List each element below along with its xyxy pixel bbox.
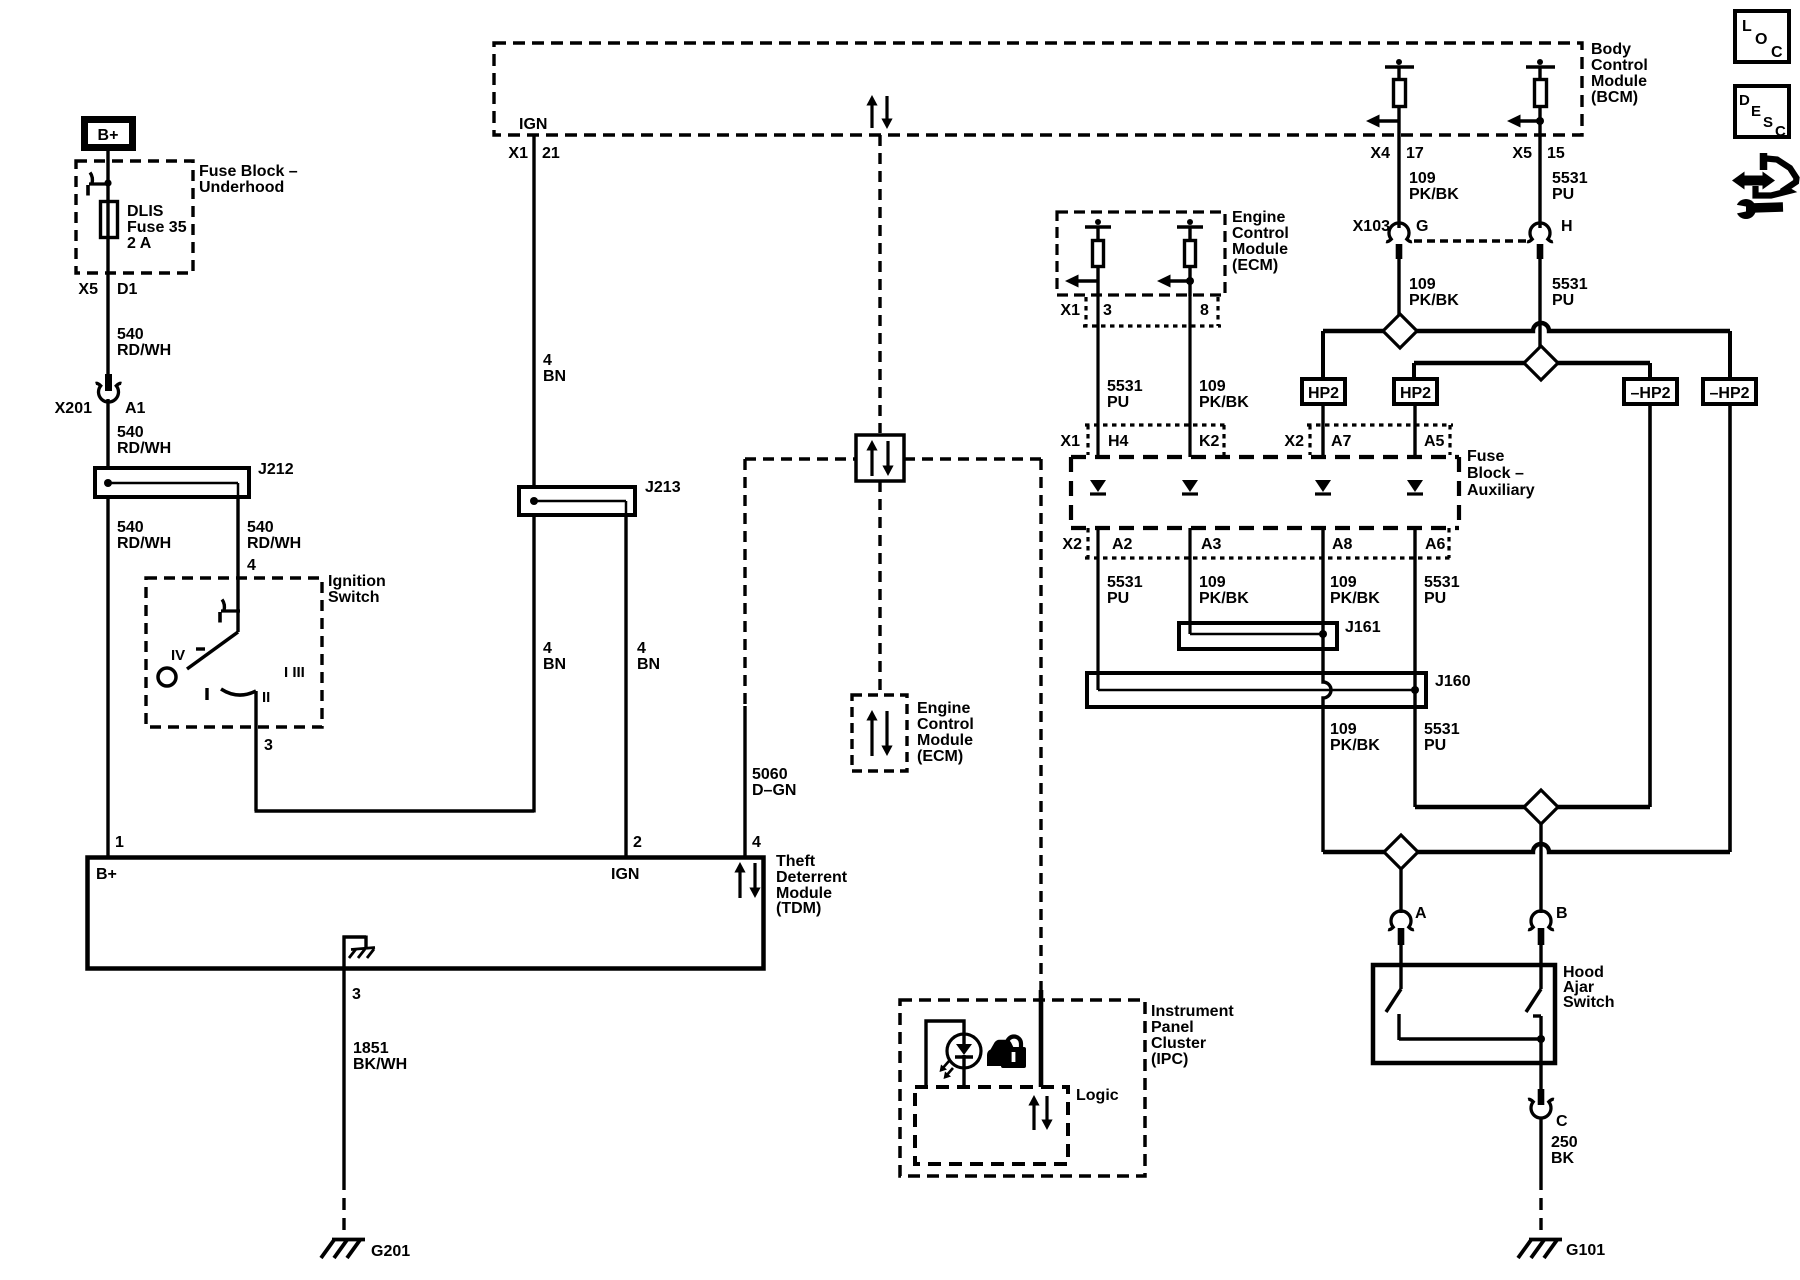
wire label 109 PK/BK below X103 [1409,276,1459,309]
wire label 109 PK/BK above X103 [1409,170,1459,203]
label Ignition Switch [328,573,386,606]
diode in fuse K2-A3 [1182,480,1198,494]
svg-text:J161: J161 [1345,619,1381,636]
security car-with-lock icon [987,1037,1026,1068]
wire -HP2-1 down to lower bus [1648,404,1652,807]
svg-text:A2: A2 [1112,536,1133,553]
svg-text:O: O [1755,31,1767,48]
svg-text:109: 109 [1409,170,1436,187]
indicator LED branch wiring [926,1021,964,1087]
label DLIS Fuse 35 2A [127,203,187,252]
svg-text:E: E [1751,103,1761,120]
fuse HP2 first box [1302,379,1345,404]
svg-text:4: 4 [543,352,552,369]
fuse aux bottom connector dotted outline [1085,528,1452,558]
serial data arrows inside TDM [734,862,760,898]
fuse HP2 second box [1394,379,1437,404]
svg-text:109: 109 [1330,721,1357,738]
hood diagnostic icon outline [1756,153,1797,196]
fuse DLIS Fuse 35 2A body [101,202,118,238]
label X201 A1 [55,400,146,417]
svg-text:5060: 5060 [752,766,788,783]
Hood Ajar Switch box [1373,965,1555,1063]
svg-text:S: S [1763,114,1773,131]
svg-text:C: C [1771,44,1783,61]
svg-text:250: 250 [1551,1134,1578,1151]
pin labels X2 A2 A3 A8 A6 [1062,536,1445,553]
svg-text:RD/WH: RD/WH [117,342,171,359]
svg-text:Block –: Block – [1467,465,1524,482]
svg-text:3: 3 [264,737,273,754]
svg-text:L: L [1742,18,1752,35]
svg-text:B: B [1556,905,1568,922]
connector X103 dashed link [1414,239,1526,242]
svg-text:PK/BK: PK/BK [1199,590,1249,607]
svg-text:K2: K2 [1199,433,1220,450]
wire label 5531 PU below A2 [1107,574,1143,607]
svg-text:X2: X2 [1284,433,1304,450]
serial data dashed line from bus to splice box [878,135,881,433]
ignition switch blade [187,611,238,669]
svg-text:G: G [1416,218,1428,235]
IGN BCM top dashed bus box [494,43,1582,135]
wire ECM X1-8 down [1188,296,1191,457]
svg-text:X2: X2 [1062,536,1082,553]
svg-text:2: 2 [633,834,642,851]
wire label 540 RD/WH upper [117,326,171,359]
svg-text:109: 109 [1199,574,1226,591]
ground G201 [321,1240,365,1259]
svg-text:Fuse Block –: Fuse Block – [199,163,298,180]
junction diamond 5531 net lower [1524,790,1558,824]
serial arrows in logic box [1028,1095,1052,1130]
pin labels X1 H4 K2 [1060,433,1219,450]
svg-text:X1: X1 [1060,302,1080,319]
svg-text:X1: X1 [1060,433,1080,450]
svg-text:–HP2: –HP2 [1709,385,1749,402]
svg-text:(BCM): (BCM) [1591,89,1638,106]
svg-text:Auxiliary: Auxiliary [1467,482,1535,499]
wire X103-G to bus diamond [1397,259,1400,331]
LOC legend box [1735,11,1789,62]
svg-text:5531: 5531 [1424,574,1460,591]
svg-text:BN: BN [637,656,660,673]
wire label 1851 BK/WH [353,1040,407,1073]
svg-text:IGN: IGN [611,866,639,883]
svg-text:A3: A3 [1201,536,1222,553]
svg-text:1851: 1851 [353,1040,389,1057]
svg-text:109: 109 [1409,276,1436,293]
svg-text:5531: 5531 [1107,574,1143,591]
wire label 109 PK/BK below A8 [1330,574,1380,607]
pin labels X5 15 [1512,145,1564,162]
Engine Control Module dashed box upper [1057,212,1225,295]
fuse aux connector X2 dotted outline [1307,425,1453,455]
diode in fuse A7-A8 [1315,480,1331,494]
serial dashed to IPC leg [904,457,1041,460]
svg-text:BN: BN [543,656,566,673]
serial data arrows on bus at BCM [866,95,892,129]
label Theft Deterrent Module TDM [776,853,848,917]
svg-text:(IPC): (IPC) [1151,1051,1188,1068]
svg-text:4: 4 [752,834,761,851]
svg-text:3: 3 [1103,302,1112,319]
junction dot hood switch common [1537,1035,1545,1043]
bus 5531 PU lower [1415,805,1650,809]
wire label 540 RD/WH below X201 [117,424,171,457]
bus 5531 PU upper [1414,363,1650,379]
Fuse Block Underhood dashed box [76,161,193,273]
Theft Deterrent Module box [88,858,764,969]
svg-text:PU: PU [1107,590,1129,607]
svg-text:Switch: Switch [1563,994,1615,1011]
svg-text:H: H [1561,218,1573,235]
svg-text:Module: Module [917,732,973,749]
wire diamond to hood switch pin A [1399,869,1402,913]
svg-text:A5: A5 [1424,433,1445,450]
svg-text:3: 3 [352,986,361,1003]
wire label 5060 D-GN [752,766,796,799]
svg-text:Control: Control [917,716,974,733]
svg-text:Fuse: Fuse [1467,448,1504,465]
svg-text:Deterrent: Deterrent [776,869,848,886]
wire label 5531 PU ECM [1107,378,1143,411]
fuse aux connector X1 dotted outline [1085,425,1227,455]
svg-text:C: C [1775,123,1786,140]
svg-text:RD/WH: RD/WH [247,535,301,552]
svg-text:J213: J213 [645,479,681,496]
hood diagnostic icon arrows [1732,172,1775,190]
svg-text:X103: X103 [1353,218,1390,235]
svg-text:15: 15 [1547,145,1565,162]
wire J212 right branch to ignition switch [236,497,239,611]
label Engine Control Module ECM upper [1232,209,1289,274]
splice J212 box [95,468,249,497]
label Instrument Panel Cluster IPC [1151,1003,1234,1068]
ECM driver resistor X1-8 [1157,219,1203,296]
junction diamond 109 net upper [1383,314,1417,348]
svg-text:D1: D1 [117,281,138,298]
svg-text:Instrument: Instrument [1151,1003,1234,1020]
svg-text:Body: Body [1591,41,1631,58]
ECM connector dotted outline [1083,297,1221,326]
svg-text:Control: Control [1591,57,1648,74]
hood diagnostic icon wrench [1732,199,1783,219]
label Fuse Block Auxiliary [1467,448,1535,499]
svg-text:109: 109 [1330,574,1357,591]
svg-text:Logic: Logic [1076,1087,1119,1104]
svg-text:Cluster: Cluster [1151,1035,1206,1052]
wire TDM pin3 to G201 [342,968,345,1236]
wire B+ to fuse DLIS [106,151,109,376]
svg-text:A6: A6 [1425,536,1446,553]
wire HP2-2 to fuse block A5 [1413,404,1416,457]
svg-text:C: C [1556,1113,1568,1130]
wire -HP2-2 down to lower bus [1728,404,1732,852]
Logic dashed box [915,1087,1068,1164]
svg-text:4: 4 [543,640,552,657]
wire diamond to hood switch pin B [1539,824,1542,913]
wire X201 to J212 [106,399,109,468]
svg-text:PK/BK: PK/BK [1330,737,1380,754]
svg-text:8: 8 [1200,302,1209,319]
connector X103-G cup and pin [1386,223,1412,259]
svg-text:A1: A1 [125,400,146,417]
wire label 5531 PU below A6 [1424,574,1460,607]
wire J213 right leg to TDM pin2 [624,515,627,857]
diode in fuse A5-A6 [1407,480,1423,494]
Engine Control Module dashed box lower [852,695,907,771]
wire label 4 BN below J213 left [543,640,566,673]
svg-text:X201: X201 [55,400,92,417]
svg-text:G101: G101 [1566,1242,1605,1259]
wire label 540 RD/WH left below J212 [117,519,171,552]
bus 109 PK/BK lower with hop [1323,844,1730,852]
label X103 G H [1353,218,1573,235]
svg-text:HP2: HP2 [1308,385,1339,402]
Instrument Panel Cluster dashed box [900,1000,1145,1176]
svg-text:5531: 5531 [1424,721,1460,738]
svg-text:(TDM): (TDM) [776,900,821,917]
svg-text:D: D [1739,92,1750,109]
wire ignition pin3 down [254,691,257,811]
svg-text:X4: X4 [1370,145,1390,162]
fuse -HP2 first box [1624,379,1677,404]
svg-text:B+: B+ [96,866,117,883]
hood switch blade A [1386,965,1541,1040]
fuse -HP2 second box [1703,379,1756,404]
label Body Control Module BCM [1591,41,1648,106]
svg-text:(ECM): (ECM) [1232,257,1278,274]
wire label 109 PK/BK below J160 [1330,721,1380,754]
svg-text:BK/WH: BK/WH [353,1056,407,1073]
svg-text:5531: 5531 [1552,170,1588,187]
svg-text:PK/BK: PK/BK [1330,590,1380,607]
svg-text:DLIS: DLIS [127,203,164,220]
svg-text:D–GN: D–GN [752,782,796,799]
svg-text:J212: J212 [258,461,294,478]
svg-text:IV: IV [171,647,185,664]
wire ignition pin3 to J213 leg [255,809,535,812]
svg-text:21: 21 [542,145,560,162]
diode in fuse H4-A2 [1090,480,1106,494]
svg-text:X1: X1 [508,145,528,162]
svg-text:PU: PU [1552,186,1574,203]
svg-text:Fuse 35: Fuse 35 [127,219,187,236]
pin labels X1 21 [508,145,559,162]
wire label 540 RD/WH right below J212 [247,519,301,552]
connector pin A cup and pin [1388,911,1414,965]
wire label 5531 PU below X103 [1552,276,1588,309]
indicator LED symbol [940,1034,982,1087]
ground symbol inside TDM pin3 [343,936,376,969]
ignition switch pivot [158,668,176,686]
serial data branch box [856,435,904,481]
contact hook at fuse block feed [88,173,108,196]
svg-text:PU: PU [1424,590,1446,607]
svg-text:PU: PU [1552,292,1574,309]
svg-text:II: II [262,689,270,706]
svg-text:RD/WH: RD/WH [117,535,171,552]
wire label 109 PK/BK ECM [1199,378,1249,411]
wire X103-H crossing to lower bus [1538,259,1541,363]
label Engine Control Module ECM lower [917,700,974,765]
serial dashed to TDM leg [745,457,856,460]
wire BCM X4-17 down to X103-G [1397,135,1400,228]
junction dot at fuse feed [104,179,111,186]
wire label 5531 PU below J160 [1424,721,1460,754]
svg-text:X5: X5 [78,281,98,298]
svg-text:PK/BK: PK/BK [1409,292,1459,309]
pin labels X2 A7 A5 [1284,433,1444,450]
wire IGN X1-21 down to J213 [532,135,535,487]
svg-text:Engine: Engine [1232,209,1285,226]
svg-text:Underhood: Underhood [199,179,284,196]
serial dashed down to ECM [878,481,881,695]
svg-text:A8: A8 [1332,536,1353,553]
svg-text:540: 540 [117,326,144,343]
wire ECM X1-3 down [1096,296,1099,457]
wire hood switch to pin C [1539,1063,1542,1089]
label Hood Ajar Switch [1563,964,1615,1011]
svg-text:HP2: HP2 [1400,385,1431,402]
Ignition Switch dashed box [146,578,322,727]
wire label 109 PK/BK below A3 [1199,574,1249,607]
svg-text:G201: G201 [371,1243,410,1260]
svg-text:540: 540 [117,519,144,536]
svg-text:I III: I III [284,664,305,681]
splice J161 box [1179,623,1337,649]
wire label 4 BN below J213 right [637,640,660,673]
ground G101 [1518,1240,1562,1259]
svg-text:109: 109 [1199,378,1226,395]
svg-text:17: 17 [1406,145,1424,162]
svg-text:540: 540 [117,424,144,441]
svg-text:X5: X5 [1512,145,1532,162]
wire J213 left leg down [532,515,535,813]
battery feed B+ terminal box [85,120,133,148]
connector X201 A1 male pin [105,374,112,391]
svg-text:Switch: Switch [328,589,380,606]
wire A2 into J160 [1096,528,1099,690]
bus 109 PK/BK upper with hop [1323,323,1730,379]
svg-text:BK: BK [1551,1150,1575,1167]
ignition switch pin4 contact [220,600,240,623]
svg-text:PU: PU [1107,394,1129,411]
BCM driver resistor X4-17 [1366,59,1414,135]
junction diamond 5531 net upper [1524,346,1558,380]
svg-text:Ignition: Ignition [328,573,386,590]
wire label 4 BN above J213 [543,352,566,385]
Fuse Block Auxiliary dashed box [1071,457,1459,528]
svg-text:4: 4 [637,640,646,657]
ECM driver resistor X1-3 [1065,219,1111,296]
svg-text:IGN: IGN [519,116,547,133]
wire pin C to G101 [1539,1117,1542,1236]
svg-text:PU: PU [1424,737,1446,754]
svg-text:2 A: 2 A [127,235,152,252]
svg-text:Control: Control [1232,225,1289,242]
splice J160 box [1087,673,1426,707]
connector X103-H cup and pin [1527,223,1553,259]
svg-text:B+: B+ [98,127,119,144]
svg-text:4: 4 [247,557,256,574]
wire BCM X5-15 down to X103-H [1538,135,1541,228]
pin labels X1 3 8 ECM [1060,302,1209,319]
svg-text:PK/BK: PK/BK [1199,394,1249,411]
wire J212 left branch down to TDM pin1 [106,497,109,857]
wire TDM pin4 serial dashed [743,459,746,857]
svg-text:A: A [1415,905,1427,922]
DESC legend box [1735,86,1789,140]
ignition switch pin3 contact arc [207,688,256,700]
svg-text:RD/WH: RD/WH [117,440,171,457]
wire label 250 BK [1551,1134,1578,1167]
wire A3 into J161 [1188,528,1191,634]
svg-text:Engine: Engine [917,700,970,717]
junction diamond 109 net lower [1384,835,1418,869]
splice J213 box [519,487,635,515]
svg-text:1: 1 [115,834,124,851]
label Fuse Block Underhood [199,163,298,196]
svg-text:PK/BK: PK/BK [1409,186,1459,203]
svg-text:Module: Module [1591,73,1647,90]
wire A8 down through splices with hop [1323,528,1331,852]
connector pin C pin and cup [1528,1089,1554,1118]
BCM driver resistor X5-15 [1507,59,1555,135]
svg-text:BN: BN [543,368,566,385]
serial arrows in ECM lower box [866,710,892,756]
wire HP2-1 to fuse block A7 [1321,404,1324,457]
svg-text:Theft: Theft [776,853,816,870]
serial dashed down to IPC [1039,459,1042,990]
svg-text:Panel: Panel [1151,1019,1194,1036]
svg-text:H4: H4 [1108,433,1129,450]
pin labels X4 17 [1370,145,1423,162]
connector X201 A1 female cup [96,383,122,402]
connector pin B cup and pin [1528,911,1554,965]
wire label 5531 PU above X103 [1552,170,1588,203]
svg-text:J160: J160 [1435,673,1471,690]
svg-text:–HP2: –HP2 [1630,385,1670,402]
hood switch blade B [1526,965,1541,1063]
wire A6 down to lower bus [1413,528,1416,807]
svg-text:5531: 5531 [1552,276,1588,293]
svg-text:Module: Module [1232,241,1288,258]
svg-text:5531: 5531 [1107,378,1143,395]
pin labels X5 D1 [78,281,137,298]
svg-text:540: 540 [247,519,274,536]
serial arrows in branch box [866,440,893,476]
serial solid into IPC logic [1039,990,1044,1087]
svg-text:(ECM): (ECM) [917,748,963,765]
svg-text:A7: A7 [1331,433,1352,450]
